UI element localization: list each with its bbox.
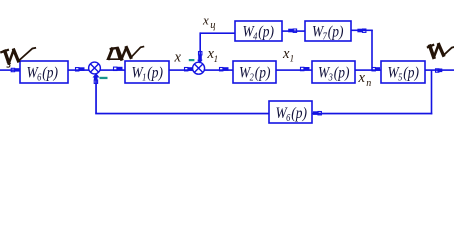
wire W4 output left to corner xyxy=(200,32,235,34)
svg-text:(p): (p) xyxy=(147,64,163,81)
svg-text:3: 3 xyxy=(328,72,333,83)
arrow marker on left riser xyxy=(94,77,98,84)
wire W3 to W5 with node xp xyxy=(355,69,381,71)
arrow marker into W6 feedback block xyxy=(313,111,321,115)
svg-text:(p): (p) xyxy=(255,64,271,81)
wire W1 to summer2 xyxy=(169,69,193,71)
wire W5 to output xyxy=(425,69,454,71)
svg-text:6: 6 xyxy=(286,112,291,123)
arrow marker before W5 xyxy=(372,67,380,71)
block W7 xyxy=(305,21,351,41)
svg-text:x: x xyxy=(202,13,209,28)
feedback junction drop right x=427 xyxy=(431,70,433,114)
arrow marker before summer1 xyxy=(76,67,85,71)
svg-text:x: x xyxy=(358,70,366,86)
arrow marker on output wire xyxy=(436,69,443,73)
svg-text:ц: ц xyxy=(210,20,215,31)
svg-text:(p): (p) xyxy=(328,24,344,41)
svg-text:5: 5 xyxy=(398,72,403,83)
svg-text:(p): (p) xyxy=(403,64,419,81)
svg-text:2: 2 xyxy=(250,72,255,83)
wire corner to W7 xyxy=(351,30,373,32)
block W6 input xyxy=(20,61,68,83)
svg-text:x: x xyxy=(174,50,182,66)
arrow marker into W7 xyxy=(357,29,366,33)
arrowhead into S1 bottom xyxy=(93,73,100,78)
svg-text:п: п xyxy=(366,78,371,89)
svg-text:1: 1 xyxy=(142,72,146,83)
label U output xyxy=(428,45,454,58)
arrow marker before summer2 xyxy=(185,67,194,71)
svg-text:(p): (p) xyxy=(258,24,274,41)
svg-text:1: 1 xyxy=(290,54,295,64)
arrow marker into W4 xyxy=(288,29,296,33)
svg-text:6: 6 xyxy=(37,72,42,83)
block W1 xyxy=(125,61,169,83)
wire input to W6 xyxy=(0,69,20,71)
summer S2 xyxy=(193,62,205,74)
feedback left riser up to S1 xyxy=(95,77,97,114)
svg-text:7: 7 xyxy=(323,31,328,42)
wire riser xp up to W7 row xyxy=(371,30,373,70)
svg-text:(p): (p) xyxy=(42,64,58,81)
arrow marker before W2 xyxy=(220,67,229,71)
label dU error xyxy=(108,47,144,60)
arrow marker on drop to S2 xyxy=(198,52,202,61)
block W6 feedback xyxy=(269,101,312,123)
minus sign at S1 xyxy=(100,77,108,79)
wire W7 to W4 xyxy=(282,30,305,32)
block W3 xyxy=(312,61,355,83)
svg-text:(p): (p) xyxy=(334,64,350,81)
wire W2 to W3 xyxy=(276,69,312,71)
arrowhead into S2 top xyxy=(197,60,203,64)
minus sign at S2 xyxy=(189,59,195,61)
wire corner down to S2 xyxy=(199,32,201,61)
summer S1 xyxy=(89,62,101,74)
wire S1 to W1 xyxy=(100,69,126,71)
label Uz input xyxy=(1,48,35,67)
svg-text:(p): (p) xyxy=(291,105,307,122)
arrow marker before W3 xyxy=(301,67,310,71)
svg-text:1: 1 xyxy=(214,54,219,64)
arrow marker before W1 xyxy=(114,67,123,71)
svg-text:4: 4 xyxy=(253,31,258,42)
block W4 xyxy=(235,21,282,41)
feedback bottom wire xyxy=(95,113,432,115)
arrow marker on input wire xyxy=(11,68,19,72)
wire W6 to summer1 xyxy=(68,69,89,71)
block W5 xyxy=(381,61,425,83)
wire S2 to W2 xyxy=(204,69,234,71)
block W2 xyxy=(233,61,276,83)
